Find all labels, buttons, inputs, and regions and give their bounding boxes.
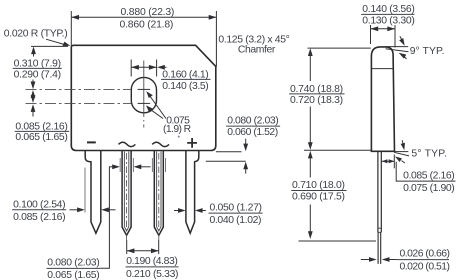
dim 0.310 bar [13, 67, 62, 69]
dim 0.100 arrow right [70, 209, 79, 211]
dim 0.740 line lower [309, 107, 311, 146]
side lead lower thin [378, 232, 381, 264]
dim 0.160 arrow right [149, 65, 157, 70]
body outline front view [71, 45, 216, 150]
dim 0.080 shoulder ext line top [216, 151, 242, 153]
dim 0.085 side line [382, 160, 395, 162]
hole vertical centerline [143, 61, 145, 128]
dim 0.190 bar [126, 266, 179, 268]
dim 0.085 gap double arrow down [31, 95, 36, 103]
dim 0.026 arrow right [361, 259, 371, 261]
dim 0.085 side arrow left [382, 159, 388, 163]
dim 0.310 arrow up [31, 46, 36, 54]
svg-text:0.085 (2.16): 0.085 (2.16) [403, 171, 455, 182]
note 9deg upper arrow [400, 36, 402, 40]
note 5deg lower arrow [402, 161, 405, 163]
pin 3 centerline [158, 153, 160, 240]
dim 0.880 arrow right [209, 15, 217, 20]
dim 0.710 arrow down [308, 231, 313, 239]
dim 0.085 lower arrow up [31, 104, 36, 112]
dim 0.085 side arrow right [389, 159, 395, 163]
svg-text:0.740 (18.8): 0.740 (18.8) [290, 84, 343, 95]
dim 0.100 arrow left [101, 207, 109, 212]
dim 0.085 bar [15, 130, 69, 132]
svg-text:0.720 (18.3): 0.720 (18.3) [290, 95, 343, 106]
dim 0.190 arrow right [151, 248, 159, 253]
pin 2 stub left [119, 158, 121, 172]
svg-text:Chamfer: Chamfer [238, 44, 276, 55]
dim 0.740 line upper [309, 54, 311, 81]
svg-text:0.020 R (TYP.): 0.020 R (TYP.) [4, 29, 68, 40]
side lead notch [378, 228, 381, 232]
dim 0.710 arrow up [308, 151, 313, 159]
dim 0.080 lead2 arrow left [134, 164, 142, 169]
dim 0.190 ext line left [126, 240, 128, 254]
radius 0.075 leader 1 [150, 96, 167, 119]
dim 0.710 line lower [309, 205, 311, 234]
svg-text:0.085 (2.16): 0.085 (2.16) [15, 121, 67, 132]
note 5deg slant line [394, 152, 409, 156]
svg-text:0.065 (1.65): 0.065 (1.65) [15, 132, 67, 143]
dim 0.050 bar [209, 212, 263, 214]
note 9deg lower arrow [404, 56, 407, 59]
svg-text:0.210 (5.33): 0.210 (5.33) [126, 269, 179, 280]
dim 0.160 bar [161, 78, 211, 80]
dim 0.050 arrow right [174, 210, 180, 212]
dim 0.080 lead2 arrow right [109, 166, 113, 168]
marking tilde 2 [152, 142, 169, 146]
radius 0.075 leader 2 [150, 109, 164, 119]
pin 2 [122, 151, 131, 236]
dim 0.310 top ext line [31, 45, 68, 47]
svg-text:0.160 (4.1): 0.160 (4.1) [162, 69, 208, 80]
dim 0.080 lower tail [245, 167, 247, 174]
marking plus [187, 138, 197, 148]
note 9deg horizontal line [385, 46, 408, 48]
svg-text:0.080 (2.03): 0.080 (2.03) [227, 116, 279, 127]
note 9deg slant line [386, 49, 409, 52]
svg-text:0.140 (3.56): 0.140 (3.56) [362, 4, 415, 15]
dim 0.140 line [371, 28, 396, 30]
hole center cross upper [138, 88, 151, 90]
dim 0.310 lower tail [32, 80, 34, 85]
dim 0.740 bar [289, 93, 344, 95]
dim 0.160 outside arrow [157, 65, 165, 70]
dim 0.050 arrow left [195, 208, 203, 213]
dim 0.310 upper tail [33, 52, 35, 57]
dim 0.085 side ext line [393, 155, 395, 169]
dim 0.190 line [127, 250, 159, 252]
svg-text:0.080 (2.03): 0.080 (2.03) [47, 257, 99, 268]
svg-text:0.290 (7.4): 0.290 (7.4) [14, 69, 62, 80]
dim 0.080 bar [226, 125, 280, 127]
dim 0.740 top ext line [308, 47, 371, 49]
dim 0.140 ext line left [370, 25, 372, 44]
dim 0.026 bar [397, 259, 449, 261]
dim 0.080 arrow down [243, 144, 248, 152]
dim 0.190 ext line right [158, 240, 160, 254]
body outline side view [371, 47, 394, 151]
dim 0.140 arrow left [371, 26, 379, 31]
svg-text:0.310 (7.9): 0.310 (7.9) [14, 58, 62, 69]
dim 0.710 line upper [309, 157, 311, 178]
dim 0.880 line [71, 16, 216, 18]
svg-text:0.075 (1.90): 0.075 (1.90) [403, 183, 455, 194]
dim 0.140 ext line right [394, 25, 396, 48]
dim 0.080 arrow up [243, 162, 248, 170]
svg-text:0.040 (1.02): 0.040 (1.02) [210, 215, 262, 226]
pin 3 stub right [165, 158, 167, 172]
marking minus [87, 141, 96, 143]
svg-text:0.190 (4.83): 0.190 (4.83) [126, 256, 178, 267]
dim 0.100 bar [12, 209, 66, 211]
note 5deg horizontal line [395, 151, 409, 153]
svg-text:0.060 (1.52): 0.060 (1.52) [227, 127, 278, 138]
svg-text:0.026 (0.66): 0.026 (0.66) [400, 248, 451, 259]
side lead upper [378, 152, 381, 233]
dim 0.085 side elbow [396, 162, 455, 181]
dim 0.140 side bar [361, 13, 414, 15]
radius 0.075 leader 2 arrow [146, 105, 153, 112]
svg-text:0.880 (22.3): 0.880 (22.3) [121, 7, 175, 18]
pin 2 stub right [132, 158, 134, 172]
svg-text:5° TYP.: 5° TYP. [411, 148, 447, 159]
hole center cross lower [138, 102, 151, 104]
note 5deg upper arrow [401, 140, 404, 144]
horizontal centerline lower [26, 102, 132, 104]
svg-text:0.065 (1.65): 0.065 (1.65) [47, 270, 99, 280]
dim 0.080 upper tail [245, 139, 247, 146]
svg-text:0.100 (2.54): 0.100 (2.54) [13, 199, 66, 210]
svg-text:0.050 (1.27): 0.050 (1.27) [210, 203, 263, 214]
dim 0.085 gap double arrow up [31, 90, 36, 98]
dim 0.740 bottom ext line [304, 149, 371, 151]
dim 0.080 lead2 bar [47, 267, 101, 269]
dim 0.080 shoulder ext line bottom [206, 160, 246, 162]
stray dot [178, 136, 180, 138]
pin 3 inner walls [157, 152, 161, 231]
dim 0.080 lead2 leader elbow [100, 167, 109, 268]
dim 0.710 bottom ext line [299, 240, 377, 242]
note 0.020 R leader [46, 39, 64, 44]
dim 0.880 ext line right [215, 11, 217, 67]
pin 2 centerline [126, 153, 128, 240]
svg-text:0.710 (18.0): 0.710 (18.0) [292, 180, 345, 191]
dim 0.160 outside tail [163, 66, 167, 68]
svg-text:0.020 (0.51): 0.020 (0.51) [400, 261, 451, 272]
dim 0.160 line [131, 66, 156, 68]
marking tilde 1 [119, 142, 136, 146]
dim 0.310 arrow down [31, 82, 36, 90]
svg-text:9° TYP.: 9° TYP. [410, 46, 445, 57]
radius 0.075 leader 1 arrow [146, 91, 153, 98]
dim 0.140 arrow right [387, 26, 395, 31]
pin 1 [85, 151, 101, 234]
pin 3 [154, 151, 163, 236]
oval hole [131, 77, 156, 112]
pin 1 extension line [84, 168, 86, 213]
dim 0.160 ext line left [130, 60, 132, 77]
dim 0.880 arrow left [71, 15, 79, 20]
pin 4 [186, 151, 199, 234]
dim 0.026 arrow left [382, 257, 390, 262]
dim 0.740 arrow down [308, 142, 313, 150]
dim 0.160 arrow left [131, 65, 139, 70]
note 0.020 R leader arrow [63, 42, 71, 46]
svg-text:0.140 (3.5): 0.140 (3.5) [162, 81, 208, 92]
svg-text:0.085 (2.16): 0.085 (2.16) [13, 212, 66, 223]
svg-text:0.860 (21.8): 0.860 (21.8) [120, 20, 174, 31]
svg-text:(1.9) R: (1.9) R [163, 124, 192, 135]
dim 0.160 ext line right [156, 60, 158, 77]
dim 0.710 bar [291, 190, 346, 192]
pin 2 inner walls [124, 152, 128, 231]
dim 0.190 arrow left [127, 248, 135, 253]
svg-text:0.130 (3.30): 0.130 (3.30) [362, 15, 415, 26]
horizontal centerline upper [26, 88, 132, 90]
svg-text:0.690 (17.5): 0.690 (17.5) [292, 192, 345, 203]
side view inner line [372, 68, 394, 70]
dim 0.085 lower tail [32, 110, 34, 117]
pin 3 stub left [151, 158, 153, 172]
dim 0.740 arrow up [308, 48, 313, 56]
dim 0.880 ext line left [70, 11, 72, 48]
